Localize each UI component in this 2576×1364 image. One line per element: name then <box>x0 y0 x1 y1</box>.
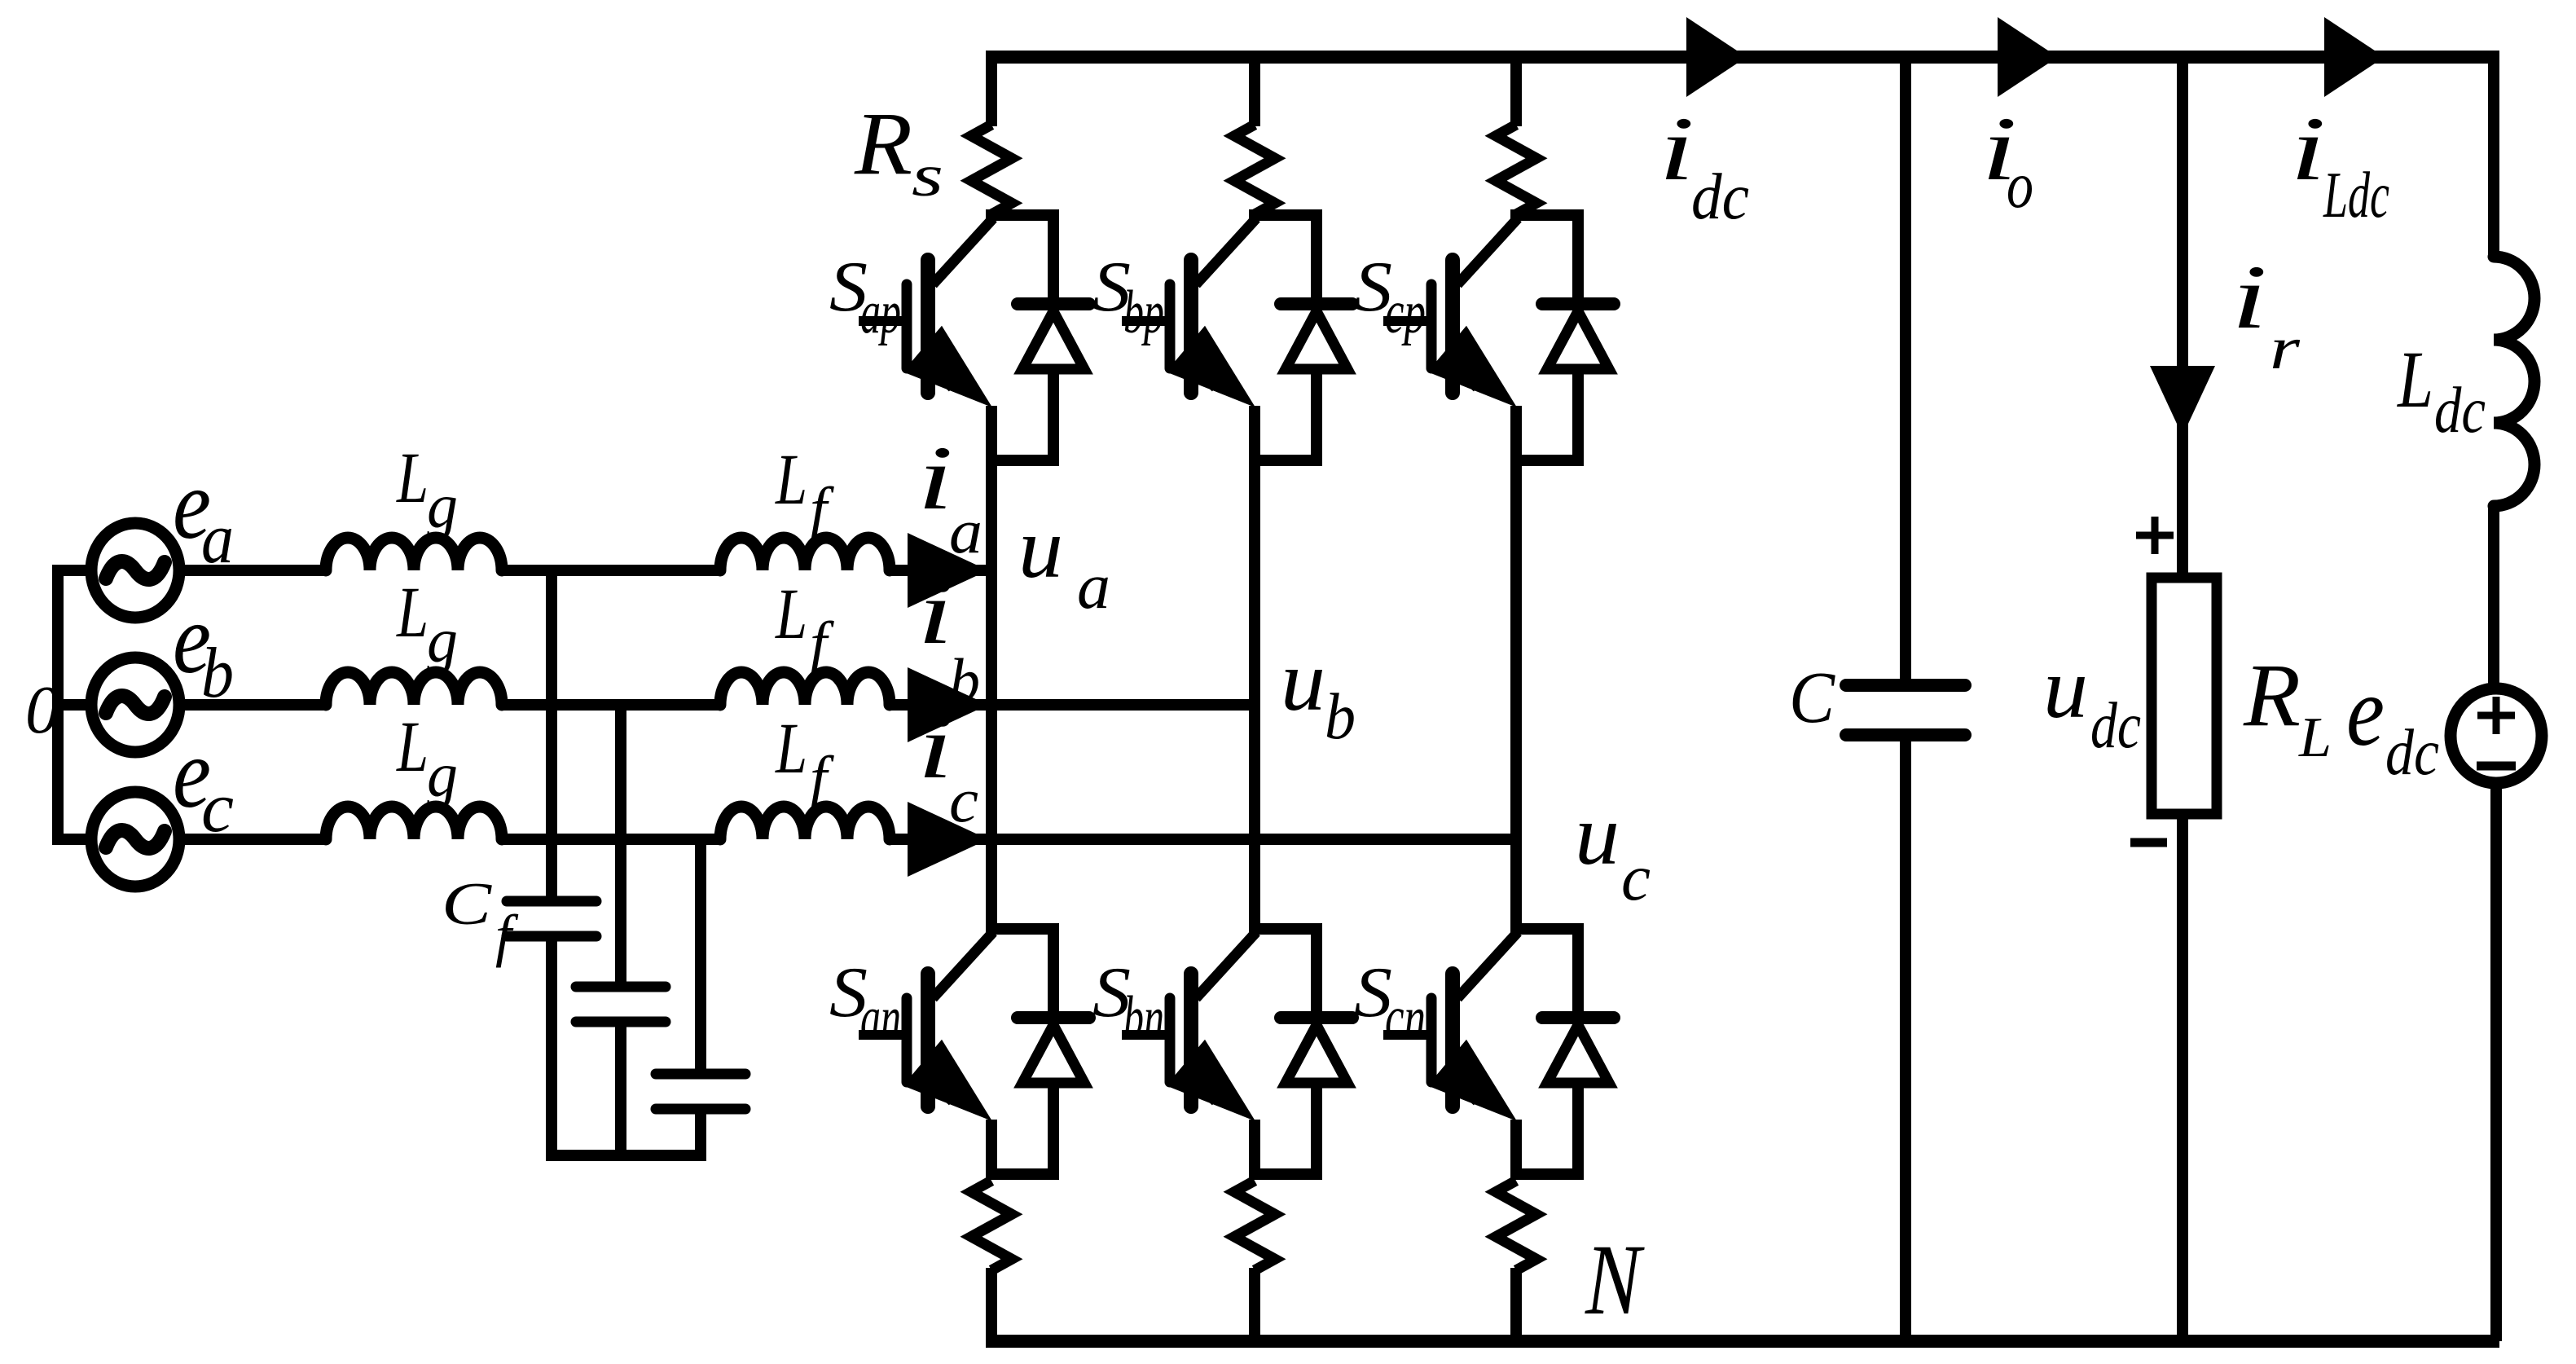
wire from bus to source e_c <box>52 834 135 845</box>
inductor L_f phase b <box>720 672 890 705</box>
wire upper cell leg a top junction and diode branch <box>986 209 1059 460</box>
capacitor C_f phase b <box>576 987 666 1022</box>
wire leg b mid <box>1249 460 1260 929</box>
svg-text:L: L <box>2396 334 2433 425</box>
wire source e_c to L_g <box>179 834 327 845</box>
svg-text:R: R <box>2243 645 2301 745</box>
wire phase c to leg c <box>988 834 1516 845</box>
svg-text:i: i <box>917 562 953 663</box>
voltage source e_a <box>91 523 179 618</box>
wire C_f c bottom <box>695 1110 706 1155</box>
label S_bn <box>1092 953 1164 1052</box>
wire L_f c to bridge <box>890 834 988 845</box>
resistor R_s leg c (lower) <box>1496 1181 1536 1270</box>
svg-text:u: u <box>1575 787 1620 882</box>
svg-text:L: L <box>774 440 807 520</box>
svg-text:dc: dc <box>2385 717 2439 789</box>
label i_r <box>2231 247 2301 382</box>
capacitor C_f phase c <box>656 1074 745 1109</box>
label i_dc <box>1659 99 1749 233</box>
inductor L_f phase c <box>720 807 890 839</box>
voltage source e_b <box>91 658 179 752</box>
wire C branch upper <box>1900 57 1911 679</box>
diode antiparallel with S_cn <box>1542 1018 1614 1083</box>
svg-text:u: u <box>2043 640 2088 736</box>
label e_b <box>173 583 234 713</box>
svg-text:b: b <box>949 645 980 715</box>
svg-text:i: i <box>1659 99 1695 200</box>
resistor R_s leg a (lower) <box>971 1181 1012 1270</box>
label R_s <box>854 94 943 209</box>
voltage source e_dc <box>2451 689 2542 783</box>
svg-text:bp: bp <box>1123 279 1164 346</box>
label i_o <box>1981 99 2033 222</box>
svg-text:R: R <box>854 94 912 193</box>
svg-text:g: g <box>427 605 458 675</box>
wire leg c mid <box>1510 460 1522 929</box>
svg-text:L: L <box>774 574 807 654</box>
wire C branch lower <box>1900 741 1911 1341</box>
svg-text:cp: cp <box>1385 279 1426 346</box>
svg-text:u: u <box>1018 500 1063 596</box>
resistor R_s leg c (upper) <box>1496 125 1536 214</box>
wire L_f b to bridge <box>890 699 988 711</box>
label L_f phase b <box>774 574 834 678</box>
inductor L_g phase c <box>326 807 502 839</box>
resistor R_s leg b (upper) <box>1234 125 1275 214</box>
svg-text:b: b <box>1325 681 1356 753</box>
svg-text:bn: bn <box>1123 984 1164 1052</box>
wire phase b to leg b <box>988 699 1255 711</box>
diode antiparallel with S_ap <box>1018 304 1089 369</box>
label i_Ldc <box>2290 99 2389 231</box>
wire L_g b to L_f b <box>502 699 720 711</box>
svg-text:a: a <box>949 496 982 566</box>
svg-text:r: r <box>2270 315 2301 382</box>
inductor L_g phase b <box>326 672 502 705</box>
resistor R_s leg a (upper) <box>971 125 1012 214</box>
svg-text:C: C <box>442 871 493 938</box>
svg-text:Ldc: Ldc <box>2323 158 2389 231</box>
label u_dc <box>2043 640 2141 762</box>
wire leg c top stub <box>1510 57 1522 126</box>
svg-text:i: i <box>2231 247 2267 348</box>
transistor S_cp (IGBT) <box>1383 218 1518 465</box>
wire from bus to source e_a <box>52 565 135 576</box>
svg-text:dc: dc <box>2434 375 2486 447</box>
current arrow i_o on top rail <box>1998 17 2058 97</box>
wire lower cell leg a top junction and diode branch <box>986 923 1059 1174</box>
minus sign (u_dc -) <box>2130 838 2167 847</box>
label L_g phase b <box>395 573 458 675</box>
label S_cn <box>1354 953 1426 1052</box>
node u_c label <box>1575 787 1651 914</box>
transistor S_cn (IGBT) <box>1383 932 1518 1179</box>
current arrow i_Ldc on top rail <box>2324 17 2385 97</box>
wire lower cell leg c top junction and diode branch <box>1510 923 1584 1174</box>
svg-text:e: e <box>2346 655 2385 767</box>
wire C_f a bottom <box>546 936 557 1155</box>
label L_f phase a <box>774 440 834 543</box>
wire from bus to source e_b <box>52 699 135 711</box>
label L_dc <box>2396 334 2486 447</box>
label S_an <box>829 953 901 1052</box>
svg-text:o: o <box>2007 148 2033 222</box>
wire leg b bottom stub <box>1249 1268 1260 1341</box>
wire L_g c to L_f c <box>502 834 720 845</box>
wire C_f tap phase a <box>546 570 557 901</box>
label S_ap <box>829 248 901 346</box>
svg-text:u: u <box>1281 633 1325 728</box>
wire top rail right corner down <box>2488 51 2499 258</box>
current arrow i_a <box>908 533 988 608</box>
wire upper cell leg b top junction and diode branch <box>1249 209 1322 460</box>
node 0 label <box>25 672 59 748</box>
wire source e_b to L_g <box>179 699 327 711</box>
wire R_L branch upper <box>2177 57 2188 580</box>
svg-text:i: i <box>917 697 953 798</box>
transistor S_an (IGBT) <box>859 932 993 1179</box>
current arrow i_b <box>908 667 988 742</box>
svg-text:L: L <box>2298 706 2332 769</box>
svg-text:dc: dc <box>1691 160 1749 233</box>
wire leg a mid <box>986 460 997 929</box>
svg-text:L: L <box>395 707 429 787</box>
wire L_dc to e_dc <box>2488 506 2499 689</box>
svg-text:c: c <box>1621 843 1651 914</box>
wire C_f tap phase c <box>695 839 706 1074</box>
capacitor C <box>1846 685 1965 735</box>
wire C_f b bottom <box>615 1022 626 1155</box>
node u_a label <box>1018 500 1110 623</box>
wire bottom DC rail (N) <box>986 1335 2499 1348</box>
wire C_f tap phase b <box>615 705 626 987</box>
svg-text:s: s <box>912 143 943 209</box>
resistor R_L <box>2152 578 2217 814</box>
svg-text:L: L <box>774 709 807 789</box>
label C_f <box>442 871 519 968</box>
wire L_f a to bridge <box>890 565 988 576</box>
svg-text:g: g <box>427 739 458 810</box>
svg-text:L: L <box>395 573 429 653</box>
inductor L_g phase a <box>326 538 502 570</box>
wire leg b top stub <box>1249 57 1260 126</box>
svg-text:g: g <box>427 470 458 541</box>
svg-text:N: N <box>1585 1224 1645 1335</box>
svg-text:i: i <box>2290 99 2326 200</box>
transistor S_bn (IGBT) <box>1122 932 1256 1179</box>
label i_c <box>917 697 978 835</box>
label i_b <box>917 562 980 715</box>
wire leg a below upper R_s <box>986 213 997 217</box>
label R_L <box>2243 645 2332 769</box>
wire L_g a to L_f a <box>502 565 720 576</box>
svg-text:L: L <box>395 438 429 518</box>
diode antiparallel with S_cp <box>1542 304 1614 369</box>
voltage source e_c <box>91 792 179 887</box>
wire leg a bottom stub <box>986 1268 997 1341</box>
current arrow i_r <box>2150 366 2215 436</box>
label e_dc <box>2346 655 2439 789</box>
wire upper cell leg c top junction and diode branch <box>1510 209 1584 460</box>
wire leg b below upper R_s <box>1249 213 1260 217</box>
wire source e_a to L_g <box>179 565 327 576</box>
node u_b label <box>1281 633 1356 753</box>
plus sign (u_dc +) <box>2136 517 2174 554</box>
wire top DC rail (P) <box>986 51 2494 64</box>
label L_g phase c <box>395 707 458 810</box>
wire leg a top stub <box>986 57 997 126</box>
wire leg c bottom stub <box>1510 1268 1522 1341</box>
label C <box>1789 658 1835 738</box>
svg-text:cn: cn <box>1385 984 1426 1052</box>
wire e_dc to bottom rail <box>2490 782 2502 1341</box>
current arrow i_c <box>908 802 988 877</box>
wire left neutral bus (node 0) <box>52 565 64 845</box>
svg-text:c: c <box>949 765 978 835</box>
resistor R_s leg b (lower) <box>1234 1181 1275 1270</box>
svg-text:dc: dc <box>2090 690 2141 762</box>
transistor S_bp (IGBT) <box>1122 218 1256 465</box>
transistor S_ap (IGBT) <box>859 218 993 465</box>
label e_a <box>173 448 234 579</box>
diode antiparallel with S_an <box>1018 1018 1089 1083</box>
label L_f phase c <box>774 709 834 812</box>
svg-text:i: i <box>917 428 953 529</box>
node N label <box>1585 1224 1645 1335</box>
label L_g phase a <box>395 438 458 541</box>
diode antiparallel with S_bn <box>1281 1018 1352 1083</box>
label S_cp <box>1354 248 1426 346</box>
inductor L_dc <box>2494 257 2534 506</box>
svg-text:C: C <box>1789 658 1835 738</box>
wire lower cell leg b top junction and diode branch <box>1249 923 1322 1174</box>
wire C_f common bus <box>546 1150 706 1161</box>
current arrow i_dc on top rail <box>1686 17 1747 97</box>
svg-text:an: an <box>860 984 901 1052</box>
capacitor C_f phase a <box>507 901 596 936</box>
inductor L_f phase a <box>720 538 890 570</box>
wire R_L branch lower <box>2177 814 2188 1341</box>
wire leg c below upper R_s <box>1510 213 1522 217</box>
svg-text:a: a <box>1077 551 1110 623</box>
diode antiparallel with S_bp <box>1281 304 1352 369</box>
svg-text:ap: ap <box>860 279 901 346</box>
label e_c <box>173 717 234 847</box>
label S_bp <box>1092 248 1164 346</box>
label i_a <box>917 428 982 566</box>
